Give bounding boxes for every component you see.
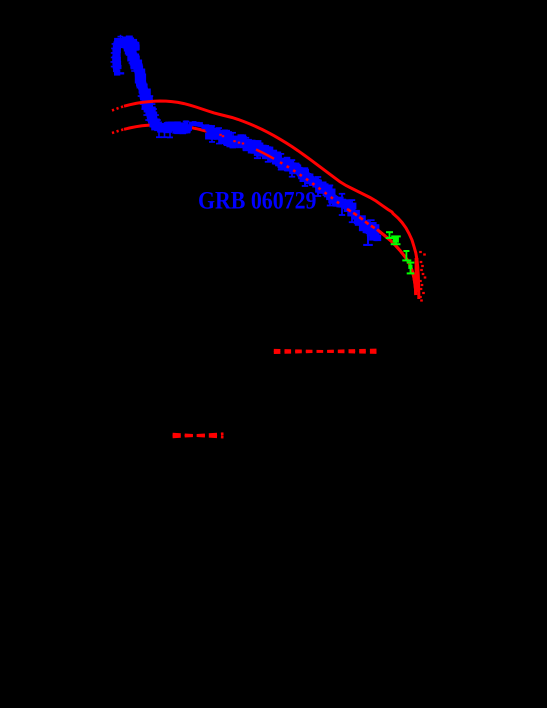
lower model curve visible streak over data band	[256, 150, 274, 159]
final X-ray point long error bar	[363, 219, 374, 246]
lower model curve beaded over last cluster	[347, 209, 377, 230]
dense data clump after plateau	[205, 125, 239, 148]
early rise data column with error bar caps	[111, 35, 125, 76]
lower model curve specks over data band	[280, 162, 340, 204]
sparse points between plateau and decline	[189, 121, 210, 129]
steep decay data band	[122, 36, 162, 129]
green UVOT point 1	[386, 231, 393, 239]
lower model light curve right part (over data)	[377, 230, 416, 296]
continuous core of steep decay band	[128, 42, 156, 127]
last X-ray data cluster	[353, 210, 381, 241]
svg-text:GRB 060729: GRB 060729	[198, 188, 317, 215]
crossing dashed red lines (upper pair)	[274, 350, 377, 352]
green UVOT point 4	[407, 262, 415, 275]
green UVOT point 3	[402, 250, 411, 261]
lower model light curve left part (under data)	[124, 125, 416, 295]
small downward error bar with cap	[254, 151, 261, 159]
upper model light curve (solid)	[124, 101, 419, 299]
green UVOT point 2	[391, 235, 401, 245]
plateau data points	[151, 120, 192, 138]
crossing dashed red lines (lower pair)	[173, 434, 224, 437]
continuous core of plateau and decline band	[155, 127, 188, 129]
peak cluster at top of light curve	[119, 37, 140, 51]
lower model curve dotted start	[112, 129, 124, 133]
upper model curve dotted start	[112, 106, 124, 110]
red specks of model showing through data clump	[219, 134, 244, 145]
fused steep drop column	[415, 258, 419, 292]
declining data band	[235, 134, 360, 223]
dotted marks right of the steep model drop	[419, 251, 426, 302]
